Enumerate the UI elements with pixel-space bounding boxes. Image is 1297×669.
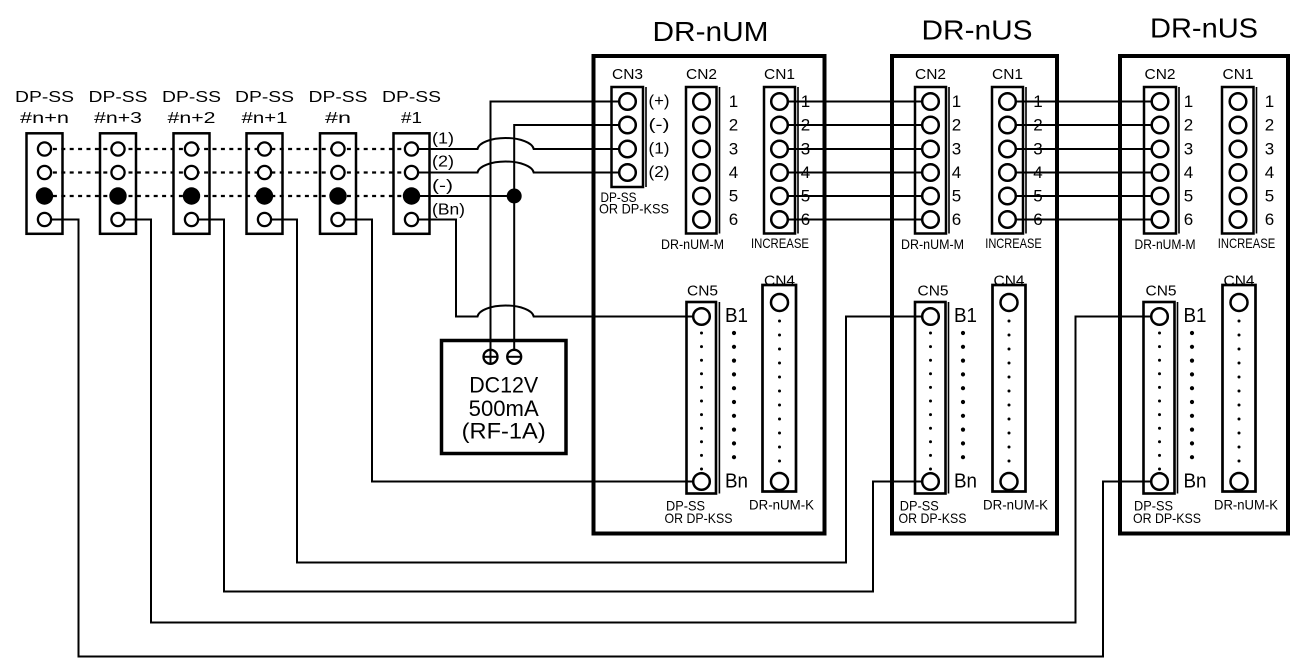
svg-text:1: 1 (1184, 92, 1193, 111)
svg-text:CN1: CN1 (992, 66, 1023, 83)
svg-text:3: 3 (952, 140, 961, 159)
svg-text:DR-nUM-K: DR-nUM-K (1214, 497, 1279, 513)
svg-text:CN3: CN3 (612, 66, 643, 83)
svg-text:1: 1 (1265, 92, 1274, 111)
svg-text:CN1: CN1 (1223, 66, 1254, 83)
svg-text:6: 6 (1184, 210, 1193, 229)
svg-text:DR-nUM-K: DR-nUM-K (749, 497, 815, 513)
svg-text:6: 6 (801, 210, 810, 229)
svg-text:DR-nUM-K: DR-nUM-K (983, 497, 1049, 513)
svg-text:CN2: CN2 (686, 66, 717, 83)
svg-text:3: 3 (729, 140, 738, 159)
svg-text:3: 3 (1265, 140, 1274, 159)
svg-text:Bn: Bn (1184, 471, 1207, 493)
svg-text:(1): (1) (432, 131, 454, 148)
svg-text:1: 1 (801, 92, 810, 111)
svg-text:4: 4 (1265, 163, 1274, 182)
svg-text:DR-nUS: DR-nUS (1150, 13, 1258, 44)
svg-text:INCREASE: INCREASE (751, 235, 809, 251)
svg-text:(+): (+) (649, 93, 670, 110)
svg-text:CN4: CN4 (1224, 273, 1255, 290)
svg-text:2: 2 (729, 116, 738, 135)
svg-text:DR-nUM-M: DR-nUM-M (1135, 236, 1196, 252)
svg-text:DP-SS: DP-SS (15, 89, 74, 106)
svg-text:2: 2 (1265, 116, 1274, 135)
svg-text:5: 5 (729, 187, 738, 206)
svg-text:1: 1 (1033, 92, 1042, 111)
svg-text:4: 4 (801, 163, 810, 182)
svg-text:5: 5 (952, 187, 961, 206)
svg-text:5: 5 (1033, 187, 1042, 206)
svg-text:2: 2 (1184, 116, 1193, 135)
svg-text:DR-nUS: DR-nUS (922, 15, 1033, 46)
svg-text:(Bn): (Bn) (432, 202, 465, 219)
svg-text:(-): (-) (432, 178, 453, 195)
svg-text:INCREASE: INCREASE (985, 235, 1042, 251)
svg-text:B1: B1 (1184, 305, 1207, 327)
svg-text:6: 6 (952, 210, 961, 229)
svg-text:DP-SS: DP-SS (309, 89, 368, 106)
svg-text:OR DP-KSS: OR DP-KSS (599, 201, 669, 217)
svg-text:(2): (2) (649, 164, 670, 181)
svg-text:CN2: CN2 (1145, 66, 1176, 83)
svg-text:1: 1 (729, 92, 738, 111)
svg-text:DP-SS: DP-SS (382, 89, 441, 106)
svg-text:CN1: CN1 (764, 66, 795, 83)
svg-text:4: 4 (952, 163, 961, 182)
svg-text:500mA: 500mA (469, 396, 539, 421)
svg-text:DP-SS: DP-SS (162, 89, 221, 106)
svg-text:(1): (1) (649, 141, 670, 158)
svg-text:#n+n: #n+n (20, 110, 69, 127)
svg-text:DP-SS: DP-SS (235, 89, 294, 106)
svg-text:B1: B1 (954, 305, 977, 327)
svg-text:CN4: CN4 (764, 273, 795, 290)
svg-text:DR-nUM-M: DR-nUM-M (901, 236, 964, 252)
svg-text:3: 3 (1033, 140, 1042, 159)
svg-text:6: 6 (1265, 210, 1274, 229)
svg-text:CN4: CN4 (994, 273, 1025, 290)
svg-text:4: 4 (1184, 163, 1193, 182)
svg-text:DC12V: DC12V (469, 373, 538, 398)
svg-text:DP-SS: DP-SS (89, 89, 148, 106)
svg-text:(RF-1A): (RF-1A) (462, 419, 546, 444)
svg-text:INCREASE: INCREASE (1218, 235, 1276, 251)
svg-text:#n+2: #n+2 (168, 110, 216, 127)
svg-text:CN2: CN2 (915, 66, 946, 83)
svg-text:CN5: CN5 (687, 283, 718, 300)
svg-text:Bn: Bn (725, 471, 748, 493)
svg-text:#n+1: #n+1 (242, 110, 288, 127)
svg-text:5: 5 (801, 187, 810, 206)
svg-text:3: 3 (801, 140, 810, 159)
svg-text:OR DP-KSS: OR DP-KSS (665, 510, 733, 526)
svg-text:4: 4 (1033, 163, 1042, 182)
svg-text:2: 2 (1033, 116, 1042, 135)
svg-text:5: 5 (1265, 187, 1274, 206)
svg-text:DR-nUM: DR-nUM (653, 16, 769, 47)
svg-text:DR-nUM-M: DR-nUM-M (661, 236, 724, 252)
svg-text:6: 6 (729, 210, 738, 229)
svg-text:(2): (2) (432, 154, 454, 171)
svg-text:OR DP-KSS: OR DP-KSS (899, 510, 967, 526)
svg-text:1: 1 (952, 92, 961, 111)
svg-text:2: 2 (952, 116, 961, 135)
svg-text:OR DP-KSS: OR DP-KSS (1133, 510, 1201, 526)
svg-text:CN5: CN5 (1146, 283, 1177, 300)
svg-text:4: 4 (729, 163, 738, 182)
svg-text:Bn: Bn (954, 471, 977, 493)
svg-text:6: 6 (1033, 210, 1042, 229)
svg-text:#n: #n (325, 110, 351, 127)
svg-text:#n+3: #n+3 (94, 110, 142, 127)
svg-text:B1: B1 (725, 305, 748, 327)
svg-text:5: 5 (1184, 187, 1193, 206)
svg-text:#1: #1 (401, 110, 422, 127)
svg-text:CN5: CN5 (918, 283, 949, 300)
svg-text:3: 3 (1184, 140, 1193, 159)
svg-text:2: 2 (801, 116, 810, 135)
svg-text:(-): (-) (649, 117, 670, 134)
